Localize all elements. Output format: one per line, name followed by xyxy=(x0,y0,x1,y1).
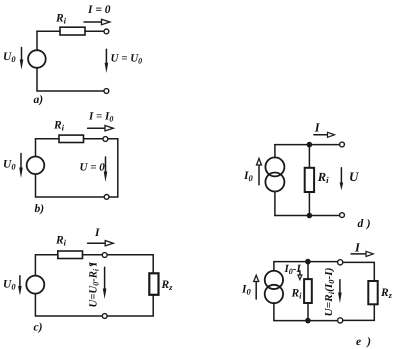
svg-text:U0: U0 xyxy=(3,279,16,292)
wire d top horizontal xyxy=(275,144,340,146)
svg-text:Ri: Ri xyxy=(291,288,303,301)
wire d middle branch lower xyxy=(308,192,310,216)
voltage source U0 (c) xyxy=(26,276,44,294)
wire d left lower vertical xyxy=(274,191,276,215)
resistor Rz (c) xyxy=(149,273,158,295)
resistor Ri (a) xyxy=(60,27,85,35)
resistor Rz (e) xyxy=(368,281,377,304)
svg-text:I: I xyxy=(94,227,100,239)
svg-text:I0: I0 xyxy=(241,284,251,297)
wire b top-left vertical xyxy=(35,139,37,157)
wire e middle branch upper xyxy=(307,262,309,280)
wire b top horizontal left xyxy=(36,138,60,140)
svg-text:I = 0: I = 0 xyxy=(87,4,111,16)
resistor Ri (c) xyxy=(58,251,83,259)
wire e bottom horizontal right xyxy=(343,319,375,321)
arrow U0 (a) xyxy=(20,48,24,70)
wire c top horizontal mid xyxy=(83,254,103,256)
svg-text:I = I0: I = I0 xyxy=(88,111,113,124)
svg-text:c): c) xyxy=(34,322,43,334)
svg-text:I: I xyxy=(314,121,321,135)
arrow I (d) xyxy=(314,132,335,137)
node a top terminal xyxy=(104,29,109,34)
node d top junction xyxy=(307,142,313,148)
wire e right lower vertical xyxy=(373,304,375,320)
wire e top horizontal right xyxy=(343,261,375,263)
wire a top horizontal left xyxy=(37,30,60,32)
node e top junction xyxy=(305,259,311,265)
current source I0 (d) lower circle xyxy=(265,173,284,192)
arrow U=U0 (a) xyxy=(105,49,109,73)
wire c left lower vertical xyxy=(34,294,36,316)
arrow I0-I small (e) xyxy=(298,271,302,280)
svg-text:e): e) xyxy=(356,336,371,348)
node d bottom junction xyxy=(307,213,313,219)
wire a top horizontal right xyxy=(85,30,104,32)
wire d bottom horizontal xyxy=(275,215,340,217)
svg-text:Rz: Rz xyxy=(161,279,174,292)
arrow U0 (b) xyxy=(19,154,23,179)
svg-text:Rz: Rz xyxy=(380,287,393,300)
current source I0 (e) upper circle xyxy=(265,271,283,289)
wire b bottom horizontal xyxy=(36,196,105,198)
arrow I=0 (a) xyxy=(84,19,110,24)
svg-text:U=Ri(I0-I): U=Ri(I0-I) xyxy=(324,268,336,317)
svg-text:Ri: Ri xyxy=(55,235,67,248)
resistor Ri (e) xyxy=(304,279,312,303)
wire e middle branch lower xyxy=(307,303,309,321)
wire c bottom horizontal left xyxy=(35,315,102,317)
node c bottom terminal xyxy=(102,314,107,319)
arrow U (e mid) xyxy=(338,280,342,303)
svg-text:U: U xyxy=(349,169,359,184)
node d bottom terminal xyxy=(340,213,345,218)
wire b bottom to right corner xyxy=(109,196,118,198)
svg-text:I: I xyxy=(354,241,361,255)
node c top terminal xyxy=(102,253,107,258)
node e bottom junction xyxy=(305,318,311,324)
wire b right vertical xyxy=(117,139,119,197)
node a bottom terminal xyxy=(104,89,109,94)
svg-text:Ri: Ri xyxy=(53,120,65,133)
arrow I0 (d) xyxy=(257,158,262,184)
svg-text:U = 0: U = 0 xyxy=(80,162,106,174)
svg-text:Ri: Ri xyxy=(55,13,67,26)
wire b top to right corner xyxy=(108,138,118,140)
svg-text:U=U0-Ri I: U=U0-Ri I xyxy=(88,261,101,307)
arrow I (c) xyxy=(88,241,114,246)
svg-text:d): d) xyxy=(358,218,371,230)
arrow U=0 (b) xyxy=(104,157,108,182)
arrow I=I0 (b) xyxy=(88,126,114,131)
node e top terminal xyxy=(338,260,343,265)
wire b left lower vertical xyxy=(35,174,37,197)
svg-text:I0: I0 xyxy=(243,170,253,183)
node d top terminal xyxy=(340,142,345,147)
wire e right upper vertical xyxy=(373,262,375,281)
wire c bottom horizontal right xyxy=(107,315,153,317)
voltage source U0 (b) xyxy=(27,157,45,175)
resistor Ri (b) xyxy=(59,135,84,142)
node b bottom terminal xyxy=(104,195,109,200)
wire d middle branch upper xyxy=(308,145,310,168)
node b top terminal xyxy=(103,137,108,142)
svg-text:b): b) xyxy=(35,203,45,215)
arrow U0 (c) xyxy=(18,276,22,296)
wire b top horizontal right xyxy=(84,138,104,140)
wire a bottom horizontal xyxy=(37,90,104,92)
current source I0 (d) upper circle xyxy=(265,157,284,176)
svg-text:U = U0: U = U0 xyxy=(111,53,143,66)
svg-text:U0: U0 xyxy=(3,159,16,172)
wire c top-left vertical xyxy=(34,255,36,275)
wire c right lower vertical xyxy=(152,295,154,316)
node e bottom terminal xyxy=(338,318,343,323)
wire a left lower vertical xyxy=(36,68,38,91)
svg-text:I0-I: I0-I xyxy=(284,263,302,276)
wire e left upper vertical xyxy=(273,262,275,271)
stray mark xyxy=(90,264,96,266)
wire e left lower vertical xyxy=(273,303,275,321)
svg-text:Ri: Ri xyxy=(317,170,329,185)
wire e top horizontal left xyxy=(274,261,338,263)
svg-text:U0: U0 xyxy=(3,51,16,64)
wire d left upper vertical xyxy=(274,145,276,158)
wire e bottom horizontal left xyxy=(274,320,338,322)
svg-text:a): a) xyxy=(34,94,44,106)
arrow I (e) xyxy=(351,251,373,256)
voltage source U0 (a) xyxy=(28,50,46,68)
arrow U (d) xyxy=(340,168,344,191)
arrow I0 (e) xyxy=(254,275,259,299)
resistor Ri (d) xyxy=(305,168,314,192)
wire c top horizontal left xyxy=(35,254,57,256)
wire c top horizontal right xyxy=(107,254,153,256)
wire a top-left vertical xyxy=(36,31,38,50)
wire c right upper vertical xyxy=(152,255,154,273)
arrow U (c mid) xyxy=(103,267,107,299)
current source I0 (e) lower circle xyxy=(265,285,283,303)
